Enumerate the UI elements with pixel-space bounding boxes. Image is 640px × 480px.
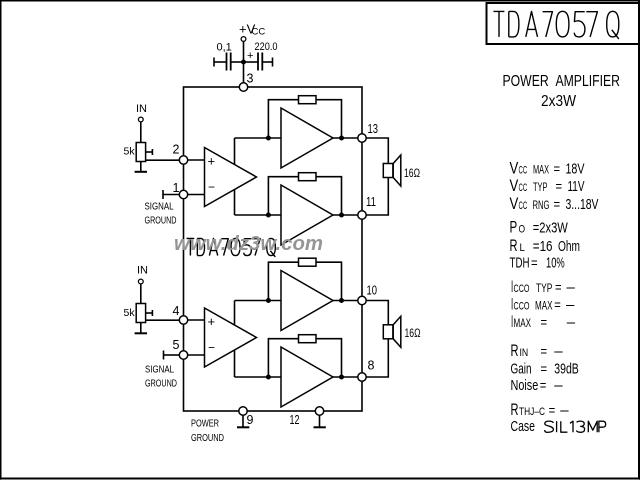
svg-text:R: R	[511, 401, 519, 419]
svg-text:Ohm: Ohm	[558, 238, 580, 255]
node U1B output junction	[340, 136, 344, 140]
svg-text:11V: 11V	[568, 178, 585, 195]
svg-text:–: –	[566, 297, 575, 314]
feedback resistor R6	[268, 339, 298, 377]
svg-text:GROUND: GROUND	[191, 432, 224, 444]
svg-text:=: =	[540, 378, 547, 393]
power terminal +VCC	[241, 37, 246, 42]
svg-text:−: −	[208, 180, 215, 194]
svg-text:L: L	[520, 242, 525, 254]
svg-text:CC: CC	[252, 27, 266, 38]
svg-text:V: V	[510, 177, 519, 195]
svg-text:10: 10	[367, 284, 378, 298]
svg-text:=: =	[541, 315, 548, 330]
pin 3 terminal	[239, 83, 247, 91]
wire R1 to pin 2	[146, 159, 180, 161]
svg-text:=: =	[554, 197, 561, 212]
svg-text:0,1: 0,1	[217, 42, 232, 54]
svg-text:2: 2	[173, 143, 180, 157]
node U1C input junction	[266, 213, 270, 217]
wire U1A output bus	[234, 138, 236, 215]
svg-text:5: 5	[173, 338, 180, 352]
svg-text:Noise: Noise	[511, 377, 539, 394]
wire speaker LS1 to pin 11	[366, 178, 388, 216]
svg-text:2x3W: 2x3W	[541, 93, 576, 110]
svg-text:CCO: CCO	[514, 301, 530, 313]
svg-text:IN: IN	[520, 347, 529, 359]
R1 wiper arm	[146, 151, 153, 153]
wire pin 2 to op-amp U1A noninverting input	[188, 159, 205, 161]
wire VCC terminal to pin 3	[243, 41, 245, 82]
svg-text:SIGNAL: SIGNAL	[145, 201, 174, 213]
svg-text:Gain: Gain	[511, 361, 532, 378]
svg-text:TYP: TYP	[533, 182, 548, 194]
wire R2 to pin 4	[146, 319, 180, 321]
svg-text:R: R	[511, 342, 519, 360]
svg-text:=: =	[531, 256, 538, 271]
potentiometer R1 5k	[136, 143, 145, 162]
pin 10 terminal	[358, 296, 366, 304]
op-amp U1C power stage channel 1 negative	[281, 185, 333, 245]
speaker LS2 16 ohm	[383, 325, 393, 339]
feedback resistor R3	[268, 100, 298, 138]
wire U1F output to pin 8	[333, 376, 358, 378]
svg-text:–: –	[567, 279, 576, 296]
svg-text:www.dz3w.com: www.dz3w.com	[174, 232, 323, 255]
svg-text:13: 13	[368, 122, 379, 136]
svg-text:RNG: RNG	[533, 200, 550, 212]
svg-text:18V: 18V	[566, 161, 585, 178]
wire IN to potentiometer R2	[140, 284, 142, 304]
svg-text:P: P	[510, 219, 518, 237]
R2 bottom terminal bar	[140, 323, 142, 333]
svg-text:=: =	[554, 298, 561, 313]
pin 8 terminal	[358, 373, 366, 381]
node U1E output junction	[340, 299, 344, 303]
node U1F input junction	[266, 375, 270, 379]
pin 13 terminal	[358, 134, 366, 142]
svg-text:GROUND: GROUND	[145, 215, 177, 227]
op-amp U1B power stage channel 1 positive	[281, 108, 333, 168]
node U1C output junction	[340, 213, 344, 217]
svg-text:R: R	[510, 237, 518, 255]
svg-text:−: −	[208, 341, 215, 355]
wire U1D output bus	[234, 301, 236, 378]
wire bus to op-amp U1E input	[235, 300, 282, 302]
op-amp U1A input stage channel 1	[205, 148, 257, 207]
svg-text:SIGNAL: SIGNAL	[145, 364, 174, 376]
wire pin 1 to op-amp U1A inverting input	[188, 194, 205, 196]
svg-text:220.0: 220.0	[255, 41, 278, 53]
wire U1B output to pin 13	[333, 137, 358, 139]
svg-text:+: +	[208, 154, 216, 169]
svg-text:3...18V: 3...18V	[566, 196, 599, 213]
ground pin 12	[319, 415, 321, 427]
op-amp U1F power stage channel 2 negative	[281, 347, 333, 407]
R1 bottom terminal bar	[140, 162, 142, 172]
svg-text:16Ω: 16Ω	[404, 168, 420, 180]
svg-text:V: V	[510, 160, 519, 178]
wire speaker LS2 to pin 8	[366, 339, 388, 377]
title text TDA7057Q	[494, 11, 619, 39]
node U1F output junction	[340, 375, 344, 379]
svg-text:12: 12	[290, 413, 300, 427]
feedback resistor R4	[268, 177, 298, 215]
svg-text:16Ω: 16Ω	[405, 328, 421, 340]
pin 1 terminal	[179, 190, 187, 198]
node VCC junction	[242, 60, 246, 64]
signal ground channel 2	[163, 351, 165, 360]
svg-text:–: –	[554, 343, 563, 360]
svg-text:=2x3W: =2x3W	[533, 220, 569, 237]
svg-text:GROUND: GROUND	[145, 378, 177, 390]
op-amp U1E power stage channel 2 positive	[281, 271, 333, 331]
svg-text:1: 1	[173, 181, 180, 195]
svg-text:–: –	[554, 377, 563, 394]
svg-text:+: +	[208, 314, 216, 329]
pin 12 terminal	[315, 407, 323, 415]
node U1E input junction	[266, 299, 270, 303]
svg-text:39dB: 39dB	[554, 361, 579, 378]
svg-text:MAX: MAX	[514, 318, 532, 330]
pin 5 terminal	[179, 351, 187, 359]
svg-text:CC: CC	[519, 165, 528, 177]
svg-text:O: O	[519, 224, 526, 236]
svg-text:4: 4	[173, 304, 180, 318]
svg-text:9: 9	[247, 413, 254, 427]
pin 4 terminal	[179, 316, 187, 324]
pin 11 terminal	[358, 211, 366, 219]
op-amp U1D input stage channel 2	[205, 308, 257, 367]
capacitor C2 220.0 electrolytic	[246, 61, 258, 63]
title box	[487, 3, 640, 44]
svg-text:+: +	[247, 50, 253, 62]
capacitor C1 0,1	[213, 58, 215, 67]
wire pin 5 to op-amp U1D inverting input	[188, 354, 205, 356]
svg-text:10%: 10%	[546, 255, 565, 272]
svg-text:=: =	[555, 280, 562, 295]
svg-text:Case: Case	[511, 418, 536, 435]
svg-text:IN: IN	[136, 103, 147, 115]
speaker LS1 16 ohm	[383, 164, 393, 178]
wire pin 13 to speaker LS1	[366, 138, 388, 164]
wire pin 4 to op-amp U1D noninverting input	[188, 319, 205, 321]
svg-text:=: =	[541, 362, 548, 377]
svg-text:THJ–C: THJ–C	[519, 406, 545, 418]
svg-text:3: 3	[247, 72, 254, 86]
R2 wiper arm	[146, 312, 153, 314]
wire pin 10 to speaker LS2	[366, 301, 388, 325]
wire U1C output to pin 11	[333, 214, 358, 216]
pin 9 terminal	[239, 407, 247, 415]
svg-text:5k: 5k	[124, 307, 136, 319]
svg-text:–: –	[567, 314, 576, 331]
node U1B input junction	[266, 136, 270, 140]
svg-text:CC: CC	[519, 182, 528, 194]
svg-text:5k: 5k	[124, 146, 136, 158]
svg-text:POWER: POWER	[191, 418, 219, 430]
IC name label TDA7057Q	[186, 238, 275, 256]
svg-text:TDH: TDH	[510, 255, 530, 272]
svg-text:MAX: MAX	[533, 165, 549, 177]
ground pin 9	[242, 415, 244, 427]
wire bus to op-amp U1F input	[235, 376, 282, 378]
wire IN to potentiometer R1	[140, 122, 142, 143]
svg-text:MAX: MAX	[535, 301, 553, 313]
svg-text:CC: CC	[519, 200, 528, 212]
svg-text:=: =	[554, 162, 561, 177]
pin 2 terminal	[179, 156, 187, 164]
svg-text:8: 8	[368, 359, 375, 373]
wire U1E output to pin 10	[333, 300, 358, 302]
IC U1 TDA7057Q outline box	[184, 87, 363, 411]
svg-text:11: 11	[366, 195, 376, 209]
svg-text:–: –	[560, 402, 569, 419]
feedback resistor R5	[268, 262, 298, 300]
svg-text:=: =	[549, 403, 556, 418]
svg-text:=: =	[556, 179, 563, 194]
svg-text:CCO: CCO	[514, 283, 530, 295]
wire bus to op-amp U1B input	[235, 137, 282, 139]
svg-text:POWER AMPLIFIER: POWER AMPLIFIER	[503, 73, 621, 90]
svg-text:IN: IN	[137, 265, 148, 277]
svg-text:V: V	[510, 195, 519, 213]
potentiometer R2 5k	[136, 304, 145, 323]
signal ground channel 1	[162, 190, 164, 199]
wire bus to op-amp U1C input	[235, 214, 282, 216]
svg-text:TYP: TYP	[536, 283, 553, 295]
svg-text:=: =	[541, 344, 548, 359]
svg-text:=16: =16	[533, 238, 553, 255]
